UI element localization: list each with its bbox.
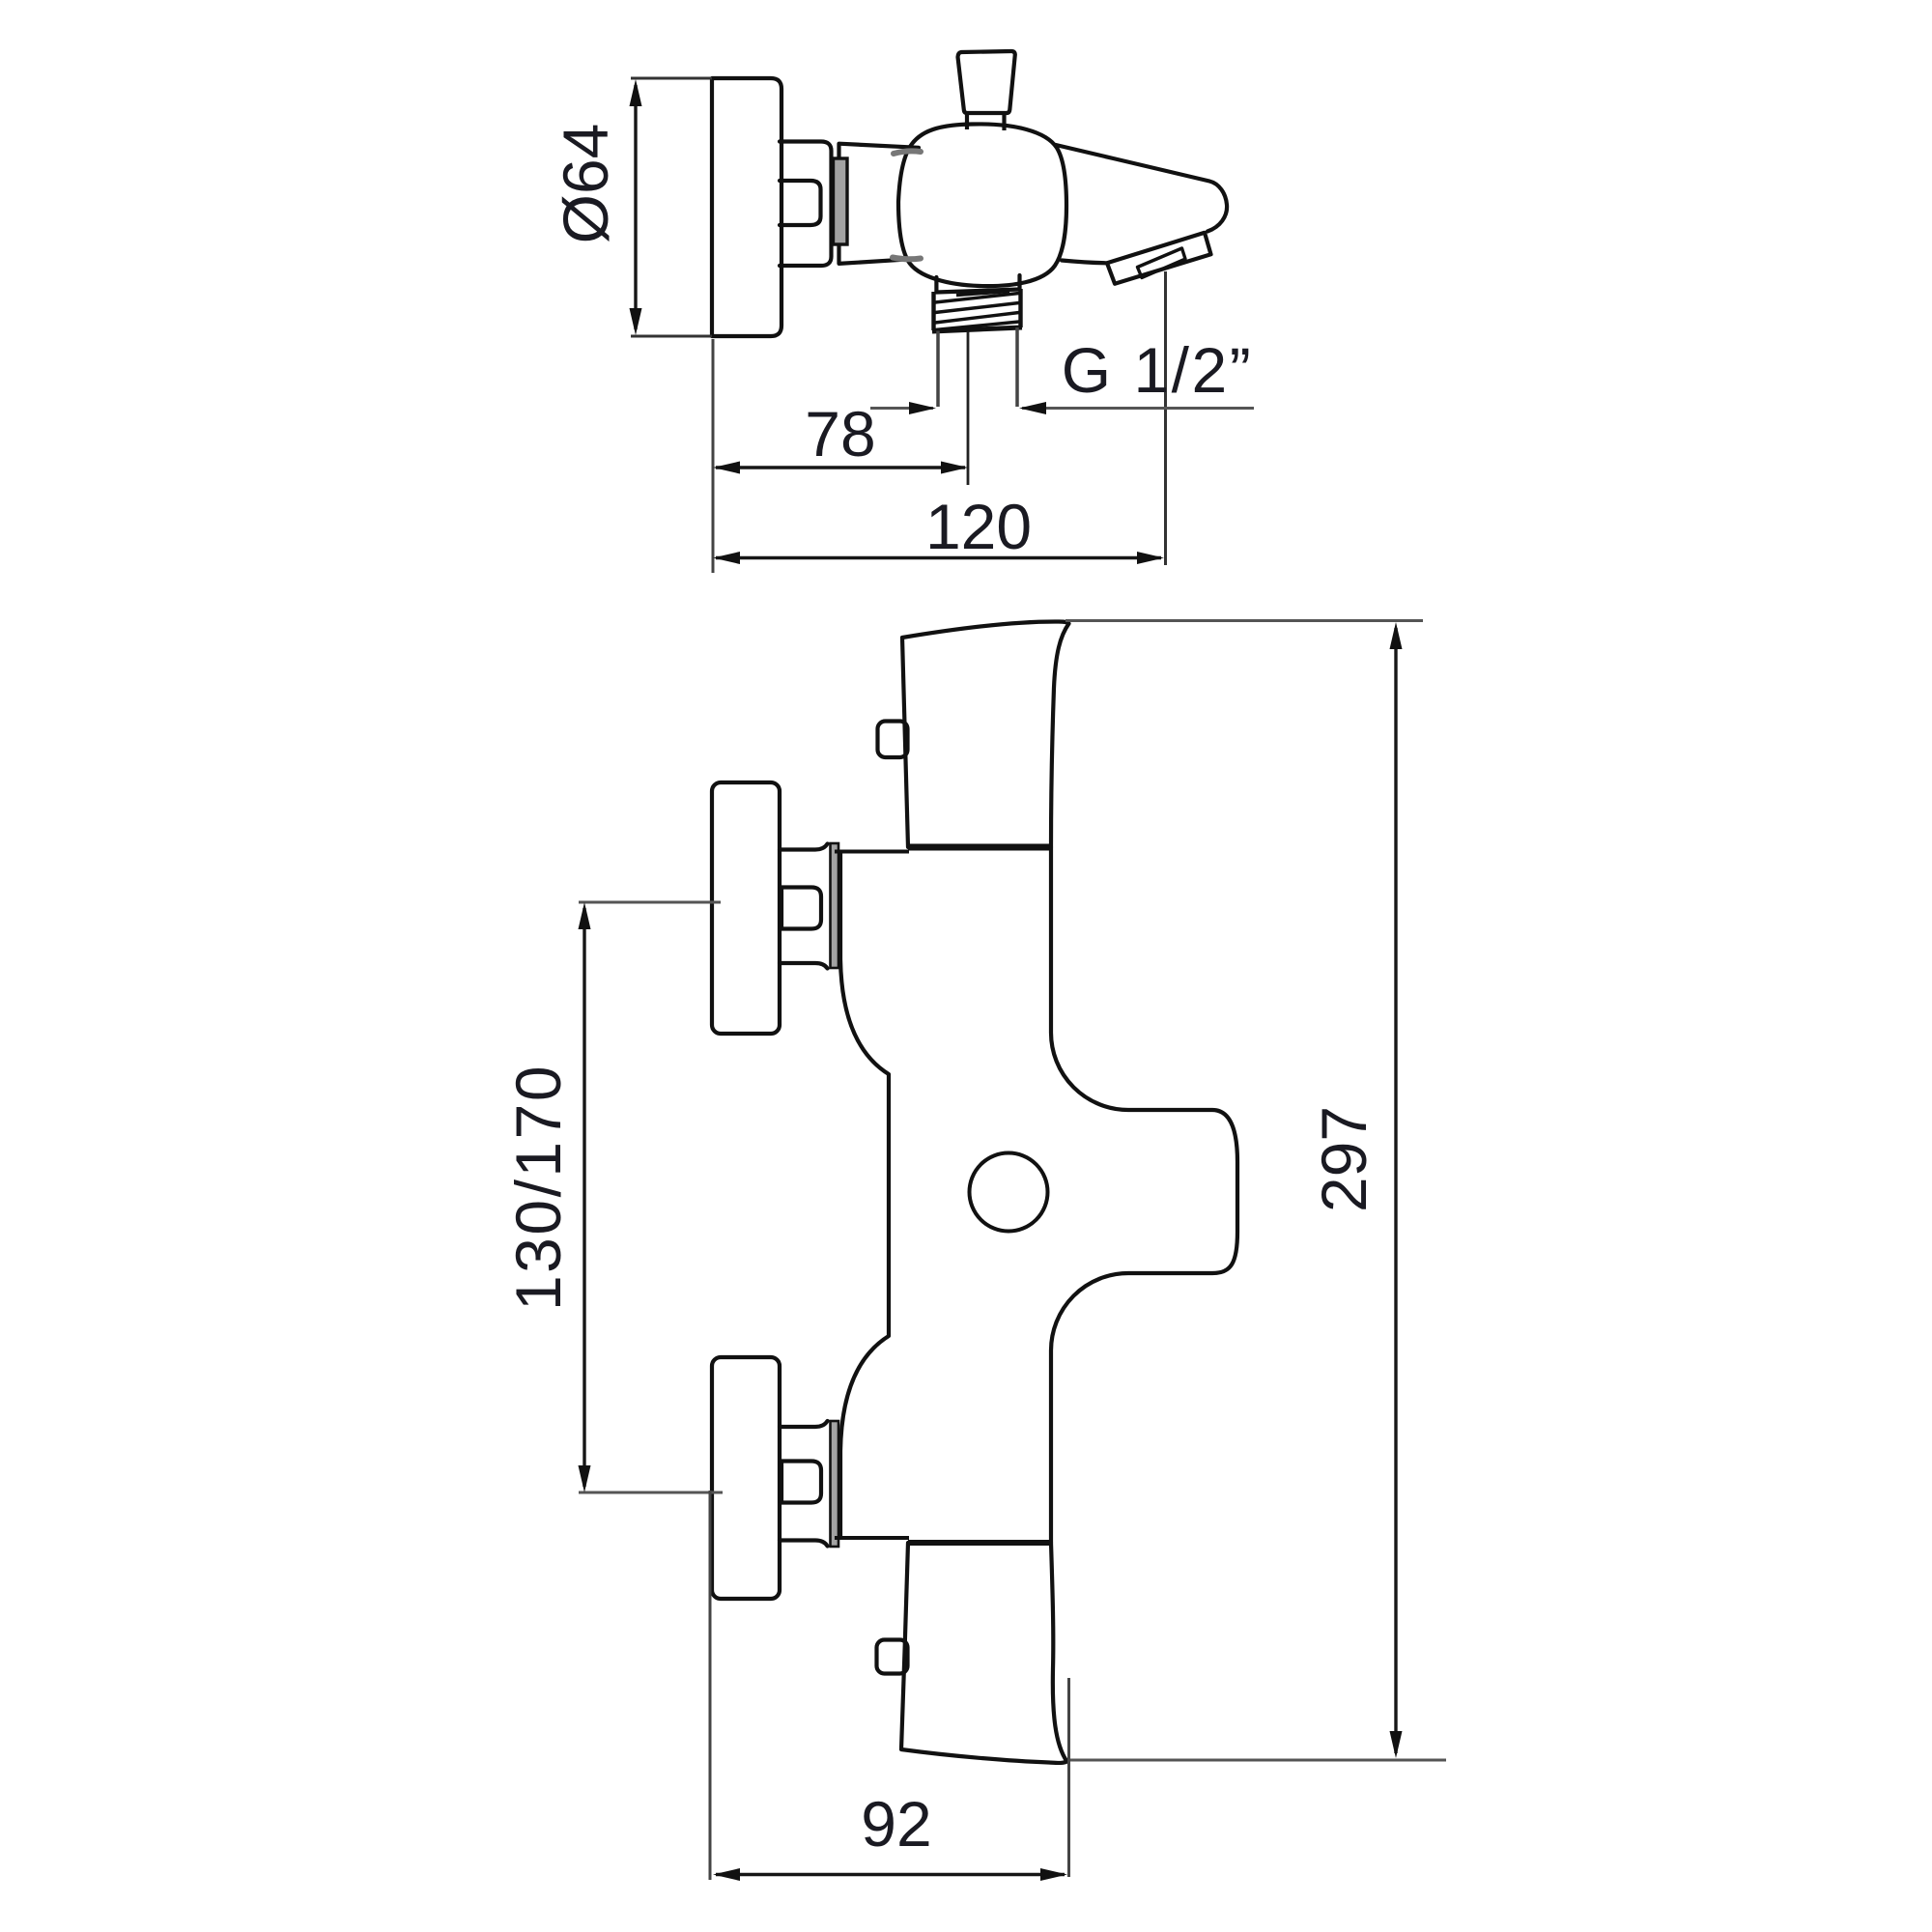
svg-text:Ø64: Ø64 bbox=[550, 124, 621, 244]
svg-text:G 1/2”: G 1/2” bbox=[1062, 334, 1253, 406]
svg-text:92: 92 bbox=[861, 1788, 931, 1860]
svg-text:297: 297 bbox=[1308, 1106, 1379, 1212]
svg-text:130/170: 130/170 bbox=[502, 1064, 574, 1311]
svg-text:78: 78 bbox=[805, 398, 875, 469]
svg-text:120: 120 bbox=[925, 491, 1032, 562]
